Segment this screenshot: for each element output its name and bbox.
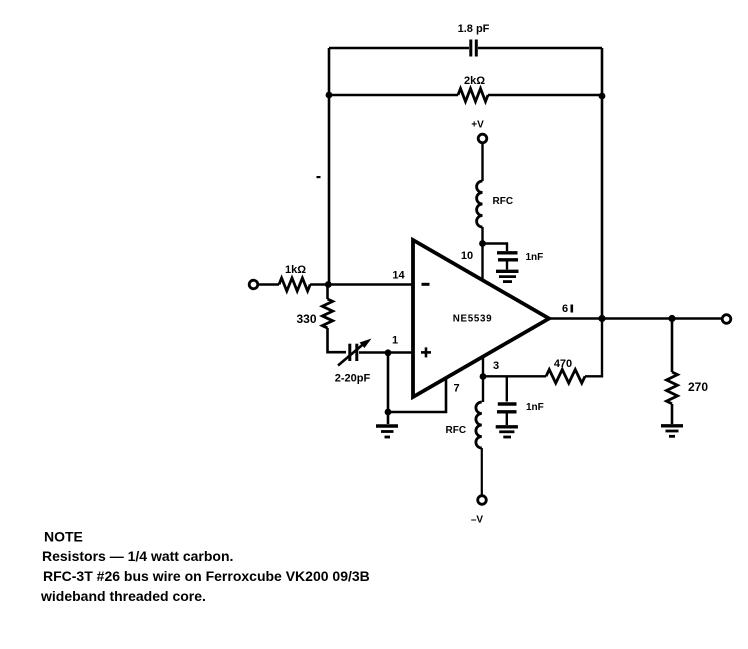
svg-text:wideband threaded core.: wideband threaded core. xyxy=(40,588,206,604)
svg-text:1kΩ: 1kΩ xyxy=(285,264,306,276)
ground under 270 xyxy=(661,426,683,437)
wire input to 1k resistor xyxy=(258,283,279,286)
resistor 1k ohm xyxy=(279,278,310,291)
node junction pin1 / ground branch xyxy=(385,349,392,356)
capacitor C 1.8pF xyxy=(471,40,477,57)
wire pin3 bypass stub xyxy=(506,376,508,401)
wire pin3 node to 470 resistor xyxy=(483,375,546,377)
svg-text:2-20pF: 2-20pF xyxy=(335,373,371,385)
resistor 470 xyxy=(546,370,585,384)
capacitor 1nF bottom bypass xyxy=(497,404,517,425)
svg-text:7: 7 xyxy=(453,383,459,395)
ground under pin1 node xyxy=(376,426,398,437)
capacitor 2-20pF variable xyxy=(338,339,372,366)
node junction right rail / 2k branch xyxy=(599,93,606,100)
inductor RFC top xyxy=(477,181,483,227)
wire 2k feedback branch left segment xyxy=(329,94,458,97)
wire rail to 330 resistor xyxy=(326,285,329,300)
wire pin1 node down xyxy=(387,353,390,412)
minus symbol inverting input xyxy=(422,283,430,286)
svg-text:NOTE: NOTE xyxy=(44,529,83,545)
wire 470 to output rail xyxy=(585,319,602,377)
svg-text:NE5539: NE5539 xyxy=(453,314,493,325)
wire 270 to ground xyxy=(671,404,674,424)
node junction output / feedback rail xyxy=(598,315,605,322)
svg-text:1: 1 xyxy=(392,335,398,347)
wire +V to RFC xyxy=(481,143,483,181)
wire top feedback branch (1.8pF) right segment xyxy=(478,47,602,50)
svg-text:RFC-3T #26 bus wire on Ferroxc: RFC-3T #26 bus wire on Ferroxcube VK200 … xyxy=(43,568,370,584)
wire to op-amp pin 7 xyxy=(388,378,446,412)
svg-text:10: 10 xyxy=(461,250,473,262)
ground under top bypass capacitor xyxy=(496,271,519,281)
resistor 2k ohm xyxy=(458,89,488,102)
wire 2k feedback branch right segment xyxy=(488,94,602,97)
input terminal xyxy=(249,280,258,289)
wire 1k to op-amp pin 14 xyxy=(310,283,413,286)
-V supply terminal xyxy=(478,496,487,505)
svg-text:Resistors — 1/4 watt carbon.: Resistors — 1/4 watt carbon. xyxy=(42,548,233,564)
wire output node to 270 resistor xyxy=(671,319,674,373)
svg-text:RFC: RFC xyxy=(493,196,514,207)
svg-text:+V: +V xyxy=(471,120,484,131)
ground under bottom bypass capacitor xyxy=(496,427,518,437)
stray scan mark xyxy=(317,176,321,178)
wire variable capacitor to op-amp pin 1 xyxy=(359,351,413,354)
svg-text:470: 470 xyxy=(554,358,572,370)
svg-text:270: 270 xyxy=(688,380,708,394)
node junction pin3 / bypass / 470 xyxy=(480,373,487,380)
wire pin10 node to bypass capacitor xyxy=(482,244,508,252)
svg-text:1nF: 1nF xyxy=(526,252,544,263)
svg-text:RFC: RFC xyxy=(446,425,467,436)
svg-text:1.8 pF: 1.8 pF xyxy=(458,23,490,35)
node junction left rail / 2k branch xyxy=(326,92,333,99)
svg-text:14: 14 xyxy=(392,270,405,282)
wire node to ground xyxy=(387,412,390,424)
node junction input / left rail xyxy=(325,281,332,288)
svg-text:6: 6 xyxy=(562,303,568,315)
wire 330 to corner and variable capacitor xyxy=(328,328,347,352)
wire op-amp pin 3 down xyxy=(482,358,484,403)
svg-text:–V: –V xyxy=(471,515,484,526)
wire right vertical rail xyxy=(601,48,604,319)
resistor 270 xyxy=(667,372,678,404)
note text block xyxy=(40,529,370,605)
node junction ground / pin7 branch xyxy=(385,409,392,416)
capacitor 1nF top bypass xyxy=(497,253,518,270)
wire output xyxy=(549,317,722,320)
pin label 6 xyxy=(562,303,573,315)
svg-text:330: 330 xyxy=(296,312,316,326)
wire top feedback branch (1.8pF) left segment xyxy=(329,47,469,50)
svg-text:3: 3 xyxy=(493,360,499,372)
svg-text:1nF: 1nF xyxy=(526,402,544,413)
op-amp U NE5539 xyxy=(413,240,549,397)
svg-text:2kΩ: 2kΩ xyxy=(464,75,485,87)
node junction pin10 / bypass xyxy=(479,240,486,247)
+V supply terminal xyxy=(478,134,487,143)
inductor RFC bottom xyxy=(476,402,482,448)
plus symbol non-inverting input xyxy=(421,347,431,357)
wire left vertical rail xyxy=(328,48,331,285)
output terminal xyxy=(722,315,731,324)
resistor 330 xyxy=(322,299,332,328)
wire RFC bottom to -V terminal xyxy=(481,448,483,495)
wire RFC to pin 10 xyxy=(481,227,483,279)
node junction output / 270 xyxy=(668,315,675,322)
